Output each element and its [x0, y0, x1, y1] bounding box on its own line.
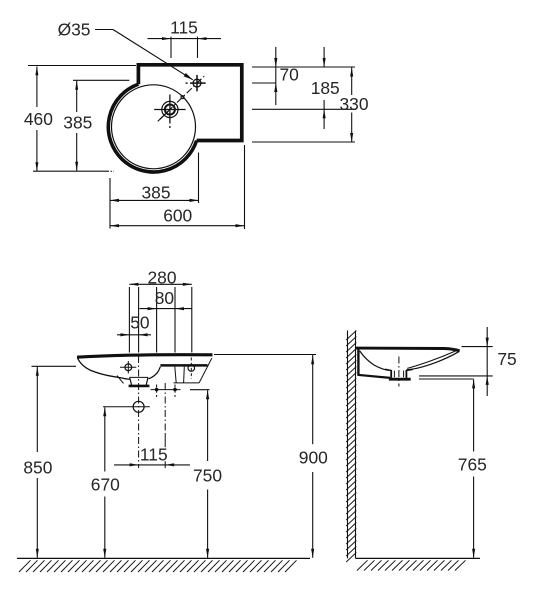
- svg-text:80: 80: [155, 288, 174, 308]
- svg-text:330: 330: [339, 94, 368, 114]
- svg-text:850: 850: [23, 458, 52, 478]
- svg-text:185: 185: [311, 78, 340, 98]
- svg-text:765: 765: [458, 454, 487, 474]
- svg-text:50: 50: [130, 312, 149, 332]
- svg-text:75: 75: [497, 349, 516, 369]
- svg-text:900: 900: [299, 448, 328, 468]
- svg-text:385: 385: [141, 183, 170, 203]
- svg-text:600: 600: [163, 206, 192, 226]
- svg-text:460: 460: [24, 109, 53, 129]
- svg-text:70: 70: [280, 64, 299, 84]
- svg-text:Ø35: Ø35: [58, 20, 91, 40]
- svg-text:670: 670: [91, 475, 120, 495]
- svg-text:115: 115: [170, 18, 198, 38]
- svg-text:750: 750: [193, 466, 222, 486]
- svg-text:385: 385: [63, 113, 92, 133]
- svg-text:115: 115: [140, 444, 168, 464]
